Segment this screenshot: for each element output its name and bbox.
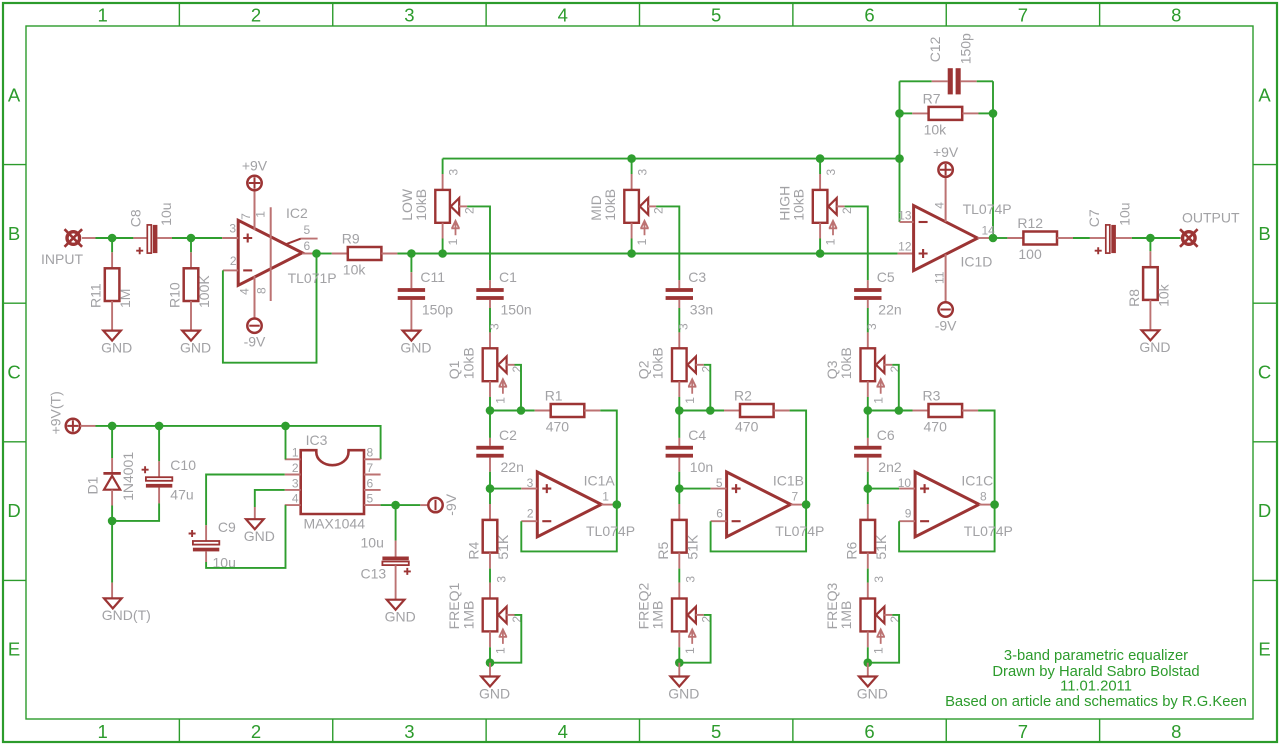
pin LOW.2 wiper [459, 205, 467, 207]
svg-text:10kB: 10kB [460, 347, 476, 379]
svg-text:R9: R9 [342, 230, 360, 246]
ground GND [479, 677, 510, 702]
pin FREQ1.2 wiper [506, 614, 514, 616]
wire C3 to Q2 [678, 308, 680, 332]
svg-text:Based on article and schematic: Based on article and schematics by R.G.K… [945, 694, 1247, 710]
capacitor C13 [382, 557, 408, 566]
wire IC2 out to R9 [317, 253, 332, 255]
svg-text:150p: 150p [957, 33, 973, 64]
IC IC3 MAX1044 [292, 432, 374, 531]
connector pad INPUT [65, 229, 83, 247]
wire C7 to pad [1132, 237, 1180, 239]
wire C5 to Q3 [867, 308, 869, 332]
pin D1 anode [111, 490, 113, 506]
wire HIGH pin3 [819, 159, 821, 174]
pin IC1D.11 V- [945, 254, 947, 302]
junction Q3 wiper [895, 406, 904, 415]
pin IC3.1 [285, 458, 301, 460]
svg-text:B: B [1258, 223, 1270, 244]
ground GND [1139, 330, 1170, 355]
capacitor C12 [927, 33, 973, 94]
op-amp IC1B [727, 472, 791, 537]
svg-text:2: 2 [292, 461, 299, 475]
pin R12 right [1057, 237, 1073, 239]
wire D1 top [111, 426, 113, 458]
junction input/R10 [187, 234, 196, 243]
resistor R8 [1126, 267, 1172, 307]
pin R7 left [912, 112, 928, 114]
supply +9V [933, 144, 959, 177]
pin Q3.1 [867, 381, 869, 397]
pin D1 cathode [111, 458, 113, 473]
ground GND [101, 331, 132, 356]
wire to GND(T) [111, 521, 113, 583]
junction R7 right [989, 109, 998, 118]
svg-text:1: 1 [871, 647, 885, 654]
wire FREQ3 pin1 [867, 647, 869, 662]
pin C3 bottom [678, 300, 680, 308]
pin Q1.3 [489, 332, 491, 348]
junction IC1B out [802, 500, 811, 509]
pin FREQ3.3 [867, 583, 869, 599]
svg-text:1: 1 [292, 446, 299, 460]
svg-text:3: 3 [635, 169, 649, 176]
pin R11 top [111, 252, 113, 268]
ground GND(T) [102, 598, 151, 623]
junction R7 left [895, 109, 904, 118]
wire C4 to +in [678, 472, 680, 489]
pin FREQ2.1 [678, 631, 680, 647]
wire Q1 pin1 [489, 397, 491, 411]
wire R5 to FREQ2 [678, 569, 680, 583]
svg-text:OUTPUT: OUTPUT [1182, 210, 1240, 226]
svg-text:INPUT: INPUT [41, 251, 83, 267]
pin C9 bottom [205, 551, 207, 562]
wire R12 to C7 [1073, 237, 1090, 239]
plus mark C10 [142, 466, 149, 473]
svg-text:R3: R3 [923, 387, 941, 403]
svg-text:4: 4 [933, 202, 947, 209]
pin IC3.7 [364, 474, 381, 476]
wire FREQ2 wiper [679, 615, 710, 663]
op-amp IC1D [914, 206, 978, 271]
svg-text:2: 2 [652, 207, 666, 214]
svg-text:GND: GND [385, 609, 416, 625]
wire node to C2 [489, 411, 491, 438]
wire R6 to FREQ3 [867, 569, 869, 583]
junction IC1C out [990, 500, 999, 509]
junction bus/MID [627, 154, 636, 163]
svg-text:R6: R6 [843, 541, 859, 559]
svg-text:3: 3 [684, 576, 698, 583]
junction bus/HIGH [816, 154, 825, 163]
junction +in [675, 484, 684, 493]
capacitor C8 [127, 202, 174, 254]
svg-text:B: B [8, 223, 20, 244]
potentiometer HIGH [776, 169, 854, 246]
wire main bus [397, 253, 897, 255]
svg-text:9: 9 [905, 506, 912, 520]
svg-text:TL071P: TL071P [288, 270, 337, 286]
svg-text:3: 3 [872, 576, 886, 583]
pin C6 bottom [867, 458, 869, 472]
pin R12 left [1007, 237, 1023, 239]
svg-text:6: 6 [367, 476, 374, 490]
svg-text:C13: C13 [361, 565, 387, 581]
wire node to R3 [868, 410, 913, 412]
pin FREQ3.1 [867, 631, 869, 647]
pin C5 bottom [867, 300, 869, 308]
wire loop left [899, 81, 901, 158]
pin IC1A -in [521, 520, 537, 522]
svg-text:14: 14 [982, 223, 996, 237]
svg-text:A: A [1258, 84, 1271, 105]
pin R2 left [724, 410, 740, 412]
wire bus to IC1D.13 [899, 159, 901, 222]
pin R8 bottom [1149, 300, 1151, 330]
svg-text:3: 3 [292, 476, 299, 490]
op-amp IC1A [537, 472, 601, 537]
svg-text:GND: GND [1139, 339, 1170, 355]
title text [945, 648, 1247, 710]
wire C10 top [158, 426, 160, 461]
svg-text:22n: 22n [878, 301, 901, 317]
capacitor C3 [666, 269, 714, 317]
pin R1 right [584, 410, 600, 412]
svg-text:2: 2 [251, 721, 261, 742]
pin IC3.3 [285, 489, 301, 491]
pin C3 top [678, 280, 680, 288]
pin C7 left [1090, 237, 1106, 239]
svg-text:1: 1 [683, 647, 697, 654]
svg-text:-9V: -9V [935, 318, 957, 334]
pin HIGH.2 wiper [837, 205, 845, 207]
junction rail/C10 [155, 422, 164, 431]
svg-text:MAX1044: MAX1044 [304, 515, 366, 531]
svg-text:E: E [1258, 639, 1270, 660]
pin IC1C +in [899, 488, 915, 490]
wire node to R2 [679, 410, 724, 412]
pin C2 bottom [489, 458, 491, 472]
junction main/LOW [438, 249, 447, 258]
pin R11 bottom [111, 301, 113, 331]
svg-text:R10: R10 [167, 282, 183, 308]
wire IC1A feedback [521, 505, 617, 552]
pin LOW.3 [442, 174, 444, 190]
pin MID.3 [631, 174, 633, 190]
pin R8 top [1149, 251, 1151, 267]
ground GND [668, 677, 699, 702]
resistor R3 [923, 387, 963, 434]
op-amp IC2 [238, 220, 302, 285]
pin IC3.2 [285, 474, 301, 476]
pin IC1D.4 V+ [945, 177, 947, 222]
pin FREQ1.3 [489, 583, 491, 599]
svg-text:IC3: IC3 [306, 432, 328, 448]
wire IC2 feedback [223, 254, 317, 363]
pin C13 top [395, 541, 397, 557]
svg-text:E: E [8, 639, 20, 660]
svg-text:1: 1 [602, 490, 609, 504]
pin IC2.5 [286, 239, 317, 245]
svg-text:GND: GND [668, 685, 699, 701]
wire C13 top [395, 505, 397, 540]
svg-text:3: 3 [865, 323, 879, 330]
svg-text:+9V: +9V [933, 144, 959, 160]
pin R3 right [962, 410, 978, 412]
resistor R6 [843, 520, 889, 560]
svg-text:1: 1 [494, 647, 508, 654]
svg-text:3: 3 [824, 169, 838, 176]
junction bus/IC1D [895, 154, 904, 163]
plus mark C13 [404, 568, 411, 575]
svg-text:10u: 10u [1117, 202, 1133, 225]
wire IC3.3 gnd [255, 490, 285, 507]
resistor R12 [1017, 215, 1057, 262]
svg-text:R11: R11 [88, 283, 104, 308]
svg-text:4: 4 [292, 492, 299, 506]
wire IC1C feedback [899, 505, 995, 552]
svg-text:C: C [7, 362, 20, 383]
wire LOW pin3 [442, 159, 444, 174]
svg-text:10u: 10u [361, 534, 384, 550]
svg-text:1N4001: 1N4001 [120, 452, 136, 501]
svg-text:C12: C12 [927, 36, 943, 62]
wire LOW wiper [467, 206, 490, 280]
svg-text:470: 470 [735, 419, 759, 435]
svg-text:10u: 10u [158, 202, 174, 225]
junction Q3/node [864, 406, 873, 415]
wire +in to R5 [678, 489, 680, 504]
svg-text:3: 3 [677, 323, 691, 330]
wire R8 top [1149, 238, 1151, 251]
svg-text:5: 5 [711, 721, 721, 742]
junction main/HIGH [816, 249, 825, 258]
svg-text:2: 2 [527, 506, 534, 520]
pin C1 bottom [489, 300, 491, 308]
pin IC1A +in [521, 488, 537, 490]
pin OUTPUT pad [1179, 237, 1182, 239]
svg-text:D: D [1258, 500, 1271, 521]
svg-text:GND: GND [857, 685, 888, 701]
svg-text:2: 2 [251, 5, 261, 26]
svg-text:GND(T): GND(T) [102, 607, 151, 623]
wire R1 to out [600, 411, 617, 505]
pin C8 left [133, 237, 147, 239]
svg-text:3: 3 [487, 323, 501, 330]
svg-text:10: 10 [898, 476, 912, 490]
svg-text:IC1C: IC1C [961, 472, 993, 488]
svg-text:8: 8 [980, 490, 987, 504]
pin Q3.3 [867, 332, 869, 348]
svg-text:470: 470 [546, 419, 570, 435]
pin C4 bottom [678, 458, 680, 472]
svg-text:2n2: 2n2 [878, 459, 902, 475]
svg-text:GND: GND [101, 339, 132, 355]
svg-text:-9V: -9V [244, 334, 266, 350]
wire R3 to out [978, 411, 995, 505]
potentiometer Q2 [636, 347, 714, 404]
pin MID.1 [631, 223, 633, 239]
pin C10 top [158, 461, 160, 477]
svg-text:D: D [7, 500, 20, 521]
svg-text:1: 1 [494, 397, 508, 404]
pin IC1C -in [899, 520, 915, 522]
pin R4 bottom [489, 553, 491, 569]
svg-text:C7: C7 [1086, 209, 1102, 227]
pin Q3.2 wiper [884, 364, 892, 366]
pin C2 top [489, 438, 491, 446]
svg-text:+9V(T): +9V(T) [48, 391, 64, 434]
junction rail/IC3.1 [281, 422, 290, 431]
pin R10 top [190, 252, 192, 268]
pin HIGH.3 [819, 174, 821, 190]
pin gnd IC3 [254, 507, 256, 519]
svg-text:8: 8 [367, 446, 374, 460]
pin R3 left [913, 410, 929, 412]
pin R6 bottom [867, 553, 869, 569]
pin IC1B out [791, 504, 807, 506]
pin IC3.5 [364, 504, 381, 506]
pin IC2.7 V+ [254, 190, 256, 230]
potentiometer MID [588, 169, 666, 246]
wire MID wiper [656, 206, 679, 280]
wire loop right [992, 81, 994, 238]
pin Q1.2 wiper [506, 364, 514, 366]
wire Q2 pin1 [678, 397, 680, 411]
svg-text:8: 8 [1171, 721, 1181, 742]
pin FREQ2 gnd [678, 663, 680, 677]
pin Q2.3 [678, 332, 680, 348]
svg-text:TL074P: TL074P [964, 523, 1013, 539]
junction FREQ2 [675, 658, 684, 667]
ground GND [857, 677, 888, 702]
pin C6 top [867, 438, 869, 446]
junction Q1 wiper [517, 406, 526, 415]
diode D1 [85, 452, 136, 501]
pin C11 bottom [410, 300, 412, 331]
pin IC1D.14 out [978, 237, 993, 239]
wire +in [490, 488, 521, 490]
pin R7 right [963, 112, 979, 114]
svg-text:51K: 51K [495, 534, 511, 560]
pin R4 top [489, 504, 491, 520]
svg-text:1MB: 1MB [650, 601, 666, 630]
potentiometer Q3 [824, 347, 902, 404]
wire D1 to gnd node [111, 506, 113, 521]
pin IC2.1/8 offset [270, 207, 272, 301]
pin IC2.4 V- [254, 276, 256, 318]
svg-text:C9: C9 [218, 519, 236, 535]
svg-text:6: 6 [864, 5, 874, 26]
wire LOW pin1 [442, 239, 444, 254]
wire FREQ1 pin1 [489, 647, 491, 662]
wire node to C4 [678, 411, 680, 438]
wire C9 to IC3.4 [206, 505, 285, 568]
svg-text:1MB: 1MB [460, 601, 476, 630]
pin C12 right [961, 80, 977, 82]
junction Q2 wiper [706, 406, 715, 415]
pin IC3.4 [285, 504, 301, 506]
svg-text:1: 1 [98, 721, 108, 742]
svg-text:5: 5 [367, 492, 374, 506]
pin IC3.6 [364, 489, 381, 491]
svg-text:150n: 150n [501, 301, 532, 317]
wire FREQ2 pin1 [678, 647, 680, 662]
resistor R5 [655, 520, 701, 560]
junction +in [486, 484, 495, 493]
resistor R4 [466, 520, 512, 560]
svg-text:6: 6 [304, 239, 311, 253]
resistor R1 [545, 387, 585, 434]
pin R6 top [867, 504, 869, 520]
wire R11 top [111, 238, 113, 252]
svg-text:C5: C5 [877, 269, 895, 285]
wire C8 to IC2 [172, 237, 222, 239]
svg-text:7: 7 [1018, 721, 1028, 742]
wire +9V rail [96, 426, 381, 459]
svg-text:GND: GND [244, 528, 275, 544]
svg-text:C8: C8 [127, 209, 143, 227]
pin R5 top [678, 504, 680, 520]
svg-text:1MB: 1MB [838, 601, 854, 630]
svg-text:C3: C3 [688, 269, 706, 285]
potentiometer LOW [399, 169, 477, 246]
svg-text:R7: R7 [923, 90, 941, 106]
svg-text:C2: C2 [499, 427, 517, 443]
resistor R9 [342, 230, 382, 277]
ground GND [180, 331, 211, 356]
svg-text:2: 2 [463, 207, 477, 214]
pin FREQ1.1 [489, 631, 491, 647]
pin IC2.3 [222, 237, 238, 239]
svg-text:1: 1 [446, 238, 460, 245]
svg-text:470: 470 [924, 419, 948, 435]
pin R1 left [535, 410, 551, 412]
junction input/R11 [108, 234, 117, 243]
pin C7 right [1116, 237, 1132, 239]
resistor R11 [88, 268, 134, 308]
pin Q1.1 [489, 381, 491, 397]
svg-text:100K: 100K [196, 275, 212, 308]
pin IC2.2 [223, 269, 238, 271]
pin LOW.1 [442, 223, 444, 239]
svg-text:33n: 33n [690, 301, 713, 317]
svg-text:1: 1 [635, 238, 649, 245]
wire IC3.2 to C9 [206, 475, 285, 526]
svg-text:3: 3 [229, 221, 236, 235]
svg-text:6: 6 [864, 721, 874, 742]
wire IC1B feedback [711, 505, 807, 552]
supply -9V [935, 302, 957, 333]
wire R2 to out [790, 411, 807, 505]
pin C13 bottom [395, 565, 397, 599]
ground GND [385, 600, 416, 625]
capacitor C10 [146, 477, 172, 487]
wire node to C6 [867, 411, 869, 438]
svg-text:+9V: +9V [242, 157, 268, 173]
svg-text:1: 1 [824, 238, 838, 245]
wire IC3.5 [381, 504, 421, 506]
pin C8 right [158, 237, 173, 239]
pin FREQ3 gnd [867, 663, 869, 677]
svg-text:2: 2 [230, 254, 237, 268]
wire node to R1 [490, 410, 535, 412]
pin IC1C out [979, 504, 995, 506]
capacitor C4 [666, 427, 714, 475]
pin IC1D.12 [898, 253, 914, 255]
svg-text:4: 4 [237, 288, 251, 295]
